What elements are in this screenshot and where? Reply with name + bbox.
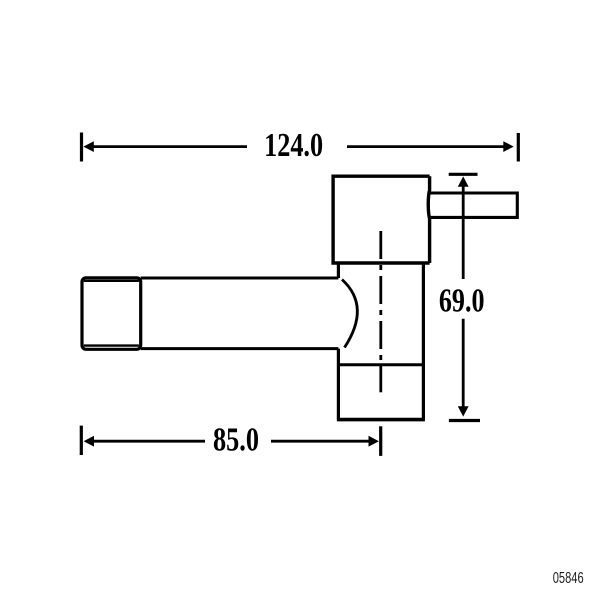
vertical dimension bottom extension tick (449, 419, 480, 422)
body shoulder line (338, 363, 423, 366)
top dimension line 124.0 left segment (89, 145, 247, 148)
bottom dimension line 85.0 left segment (89, 440, 205, 443)
body left edge below spout (337, 349, 340, 420)
spout end cap inner top line (84, 280, 139, 282)
bottom dimension left arrowhead (84, 436, 94, 447)
vertical dimension down arrowhead (458, 406, 469, 416)
spout end cap outline (82, 278, 141, 350)
svg-text:124.0: 124.0 (264, 127, 323, 164)
vertical dimension line 69.0 upper segment (462, 186, 465, 280)
body left leg between box and spout (337, 262, 340, 279)
top dimension right arrowhead (503, 141, 513, 152)
svg-text:85.0: 85.0 (213, 421, 259, 458)
vertical centerline (dash-dot) (379, 231, 382, 392)
spout top line (141, 277, 339, 280)
valve body top box (333, 176, 430, 263)
body bottom edge (337, 418, 425, 422)
spout bottom line (141, 347, 339, 350)
vertical dimension up arrowhead (458, 176, 469, 186)
top dimension right extension tick (517, 133, 520, 162)
bottom dimension left extension tick (80, 426, 83, 455)
handle (430, 193, 518, 217)
spout bore arc (342, 280, 357, 348)
top dimension line 124.0 right segment (347, 145, 506, 148)
top dimension left extension tick (80, 133, 83, 162)
vertical dimension top extension tick (449, 173, 478, 176)
bottom dimension line 85.0 right segment (271, 440, 372, 443)
svg-text:69.0: 69.0 (439, 283, 485, 320)
body right edge (422, 263, 425, 420)
spout end cap inner bottom line (84, 344, 139, 346)
top dimension left arrowhead (83, 141, 93, 152)
svg-text:05846: 05846 (553, 570, 584, 587)
vertical dimension line 69.0 lower segment (462, 319, 465, 408)
valve body top box right edge with handle fillet (428, 176, 429, 263)
bottom dimension right arrowhead (369, 436, 379, 447)
bottom dimension right extension tick (379, 426, 382, 456)
